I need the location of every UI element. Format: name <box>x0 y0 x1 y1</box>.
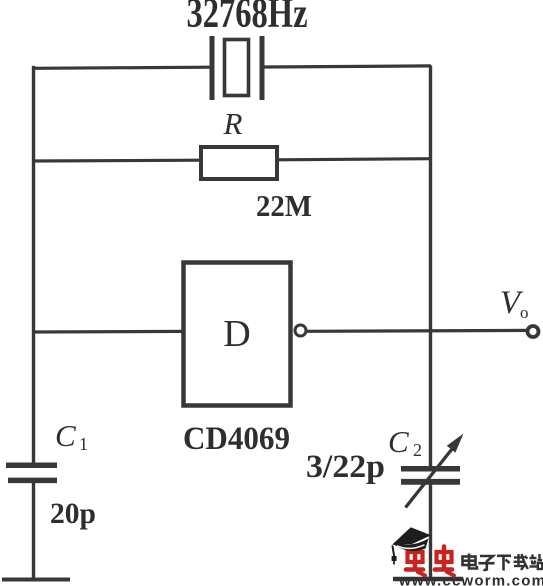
svg-text:CD4069: CD4069 <box>183 421 290 457</box>
wire resistor row right <box>277 159 431 160</box>
watermark: char zhan <box>530 554 543 569</box>
watermark: red character chong #1 <box>406 547 425 576</box>
watermark: graduation cap <box>392 527 431 564</box>
svg-text:3/22p: 3/22p <box>306 449 385 485</box>
wire left rail lower <box>32 481 35 580</box>
label C1 <box>55 418 88 454</box>
inversion bubble <box>295 325 306 336</box>
svg-text:R: R <box>223 106 243 141</box>
watermark: red character chong #2 <box>435 547 454 576</box>
wire resistor row left <box>32 159 201 163</box>
svg-text:1: 1 <box>79 434 88 454</box>
wire bottom-right rail bar <box>393 577 463 582</box>
wire top-right (crystal right lead to right rail) <box>264 66 431 67</box>
svg-text:C: C <box>55 418 76 453</box>
watermark: char zi <box>479 556 495 570</box>
wire inverter input <box>32 330 183 334</box>
label C2 <box>388 424 422 460</box>
svg-text:32768Hz: 32768Hz <box>187 0 308 37</box>
svg-text:C: C <box>388 424 409 459</box>
svg-text:2: 2 <box>413 440 422 460</box>
wire left rail upper <box>32 66 35 464</box>
watermark: char zai <box>514 554 529 570</box>
watermark: char dian <box>463 554 478 569</box>
watermark: char xia <box>497 556 511 571</box>
inverter U1 (CD4069 gate D) <box>184 263 307 406</box>
label Vo <box>500 285 529 322</box>
crystal X1 32768Hz <box>212 36 262 100</box>
svg-text:20p: 20p <box>50 497 96 530</box>
wire right rail upper <box>429 65 432 467</box>
capacitor C1 <box>6 465 57 480</box>
resistor R <box>201 147 277 179</box>
svg-text:D: D <box>223 313 250 355</box>
svg-text:22M: 22M <box>256 188 312 223</box>
wire inverter output to terminal <box>307 329 528 333</box>
wire top-left (crystal left lead to left rail) <box>32 67 210 68</box>
wire right rail lower <box>429 483 432 580</box>
svg-text:o: o <box>520 303 529 322</box>
output terminal Vo <box>528 326 539 337</box>
capacitor C2 (variable) <box>401 449 460 508</box>
arrowhead of C2 <box>447 434 464 453</box>
wire bottom-left rail bar <box>2 578 70 582</box>
